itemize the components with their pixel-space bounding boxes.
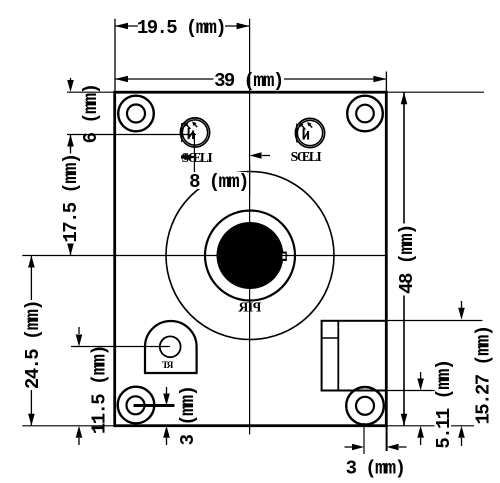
extension line top edge right — [387, 91, 484, 93]
extension line hole center thick — [134, 404, 175, 407]
RT thermistor outline — [145, 321, 197, 373]
dimension 19.5mm text — [137, 17, 225, 39]
relay footprint rectangle — [322, 321, 387, 391]
dimension 24.5mm text (rotated) — [22, 300, 44, 390]
dimension 8mm pot extension line — [193, 133, 195, 172]
svg-text:48 (mm): 48 (mm) — [396, 225, 418, 294]
svg-text:24.5 (mm): 24.5 (mm) — [22, 301, 44, 389]
vertical centerline — [249, 19, 251, 435]
dimension 17.5mm text (rotated) — [60, 154, 82, 244]
svg-text:11.5 (mm): 11.5 (mm) — [89, 346, 111, 434]
svg-text:8 (mm): 8 (mm) — [189, 171, 248, 193]
dimension 15.27mm text (rotated) — [473, 325, 495, 427]
relay internal vertical line — [337, 321, 339, 391]
extension line relay bottom right — [387, 390, 437, 392]
RT label (mirrored) — [161, 361, 173, 371]
horizontal centerline — [22, 255, 386, 257]
dimension 3mm left text (rotated) — [177, 387, 199, 446]
dimension 8mm arrows — [181, 155, 186, 158]
potentiometer left — [180, 118, 209, 147]
extension line pot center — [67, 134, 196, 136]
dimension 19.5mm line — [115, 25, 138, 27]
mounting hole bottom-right — [346, 387, 384, 425]
svg-text:3 (mm): 3 (mm) — [177, 387, 199, 446]
dimension 48mm line — [403, 92, 405, 426]
dimension 6mm arrows — [70, 78, 72, 84]
dimension 17.5mm line — [70, 135, 72, 256]
board outline — [115, 92, 387, 426]
RT hole — [160, 336, 181, 357]
dimension 11.5mm arrows — [78, 327, 80, 334]
svg-text:15.27 (mm): 15.27 (mm) — [473, 326, 495, 424]
extension line hole center bottom vertical — [363, 423, 365, 454]
extension line bottom edge left — [22, 425, 114, 427]
extension line top edge left — [67, 91, 114, 93]
svg-text:39 (mm): 39 (mm) — [214, 70, 283, 92]
PIR lens outer circle — [166, 172, 334, 340]
dimension 39mm line — [115, 78, 214, 80]
dimension 8mm text — [185, 165, 250, 195]
dimension 15.27mm arrows — [461, 301, 463, 308]
extension line RT center — [71, 346, 170, 348]
svg-text:19.5 (mm): 19.5 (mm) — [137, 17, 225, 39]
mounting hole top-left — [118, 96, 154, 132]
mounting hole top-right — [347, 96, 383, 132]
PIR lens middle circle — [205, 211, 295, 301]
PIR label (mirrored) — [237, 301, 261, 316]
svg-text:3 (mm): 3 (mm) — [346, 458, 405, 480]
dimension 3mm bottom arrows — [345, 446, 353, 448]
dimension 48mm text (rotated) — [396, 224, 418, 296]
potentiometer right — [295, 118, 324, 147]
dimension 6mm text (rotated) — [80, 85, 102, 144]
svg-text:6 (mm): 6 (mm) — [80, 85, 102, 144]
dimension 3mm left arrows — [166, 387, 168, 394]
PIR sensor black disc — [217, 222, 284, 289]
dimension 5.11mm text (rotated) — [433, 360, 455, 450]
extension line board edge bottom vertical — [386, 427, 388, 451]
svg-text:SŒLI: SŒLI — [291, 149, 322, 164]
extension line top-left vertical — [114, 19, 116, 92]
relay internal horizontal line — [322, 337, 339, 339]
svg-text:17.5 (mm): 17.5 (mm) — [60, 154, 82, 242]
lens marker square — [280, 252, 287, 261]
svg-text:5.11 (mm): 5.11 (mm) — [433, 360, 455, 448]
svg-text:PIR: PIR — [237, 301, 261, 316]
extension line bottom edge right — [387, 425, 484, 427]
extension line top-right vertical — [385, 72, 387, 93]
dimension 5.11mm arrows — [420, 372, 422, 379]
extension line relay top right — [387, 320, 483, 322]
dimension 11.5mm text (rotated) — [89, 346, 111, 434]
dimension 39mm text — [214, 70, 283, 92]
mounting hole bottom-left — [118, 387, 155, 424]
dimension 24.5mm line — [30, 256, 32, 426]
